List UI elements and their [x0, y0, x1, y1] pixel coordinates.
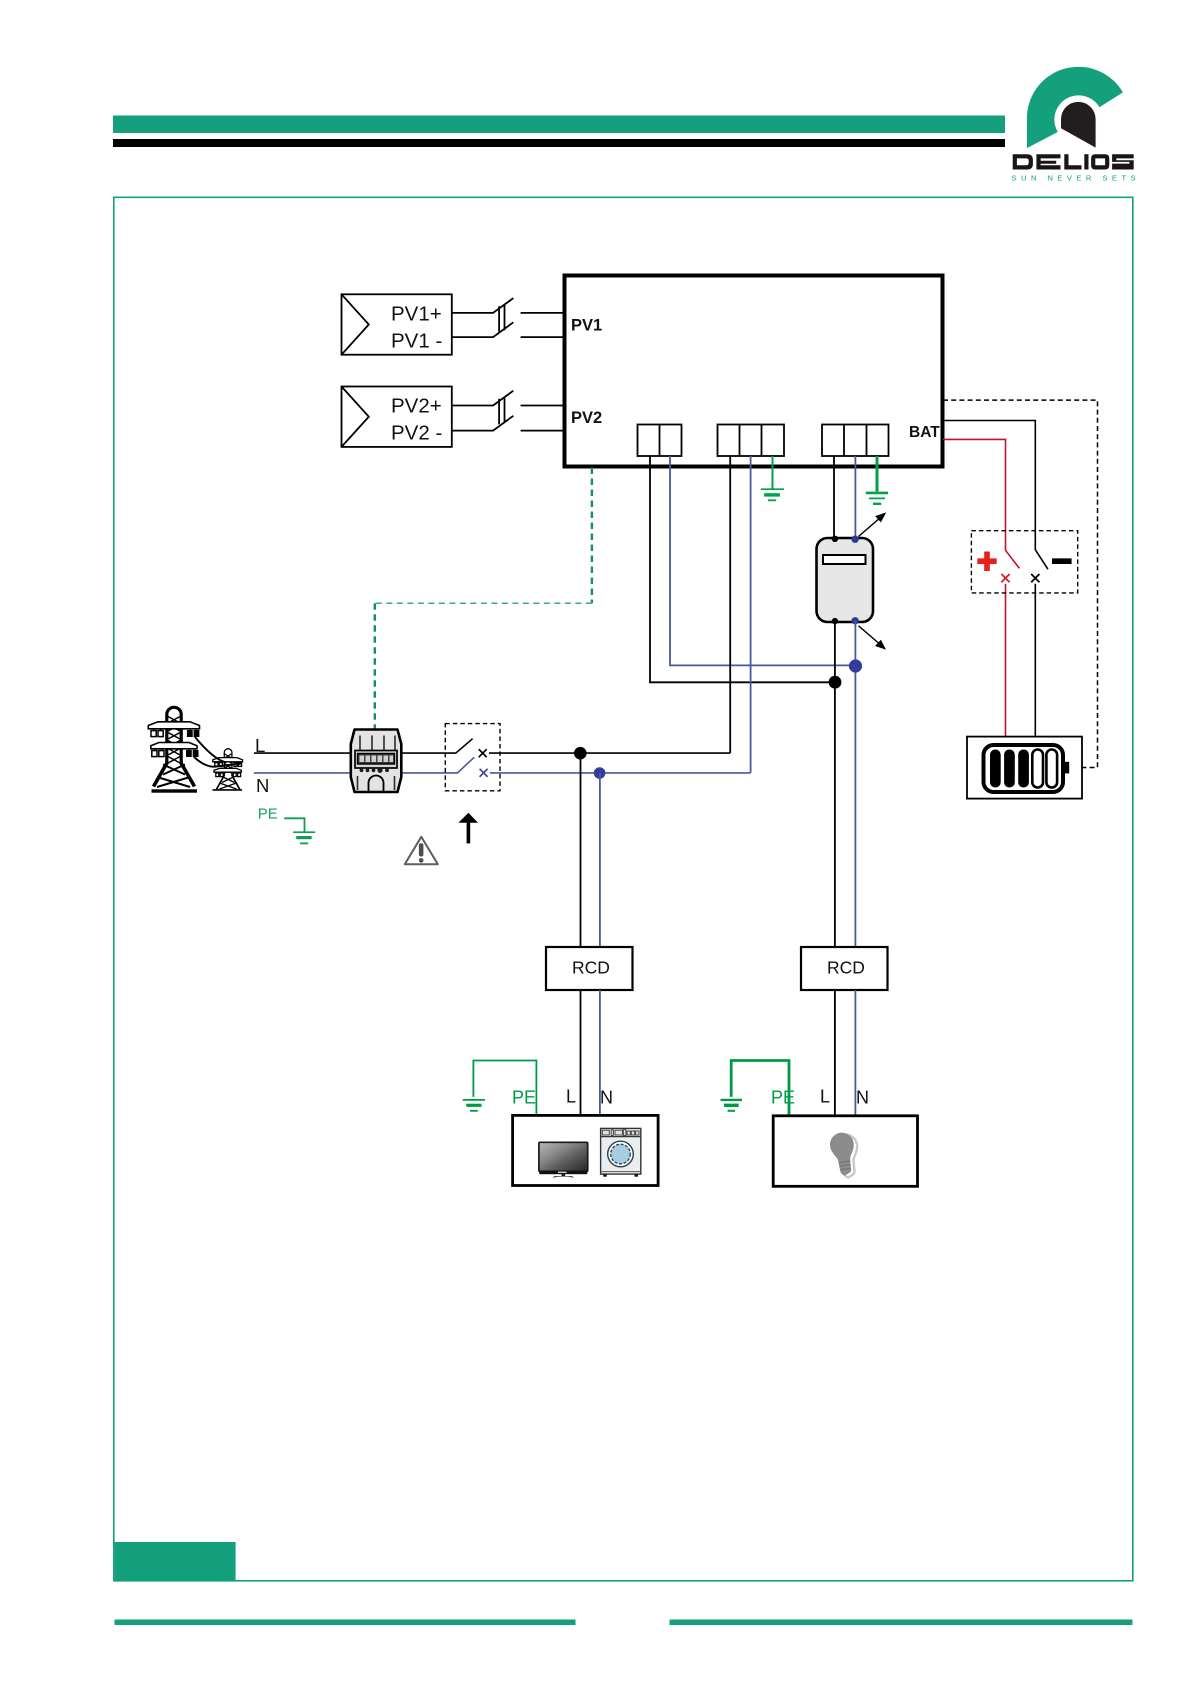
svg-text:PE: PE — [512, 1088, 536, 1108]
loads box 1 — [513, 1115, 659, 1185]
header black bar — [113, 139, 1005, 147]
BAT positive wire red — [943, 439, 1019, 736]
DIN energy meter device — [351, 730, 402, 793]
meter arrow up — [859, 514, 885, 537]
terminal block 3 (load) — [822, 425, 889, 457]
header green bar — [113, 116, 1005, 134]
PE wire loads 1 — [473, 1061, 536, 1117]
wire RCD2 to loads L — [834, 990, 836, 1116]
inverter box — [565, 276, 943, 467]
battery breaker dashed box — [971, 531, 1077, 593]
TV icon — [539, 1142, 588, 1177]
wire grid L black — [729, 456, 731, 753]
wire meter to RCD2 L black — [834, 621, 836, 947]
wire N to RCD1 — [599, 773, 601, 947]
PV1 wires + connector — [452, 298, 565, 337]
svg-text:L: L — [566, 1087, 576, 1107]
footer rule left — [115, 1620, 576, 1626]
svg-text:BAT: BAT — [909, 424, 940, 441]
junction dot black — [829, 676, 842, 689]
wire load N blue — [854, 456, 856, 539]
ground symbol grid PE — [761, 489, 784, 500]
BAT negative wire black — [943, 421, 1048, 737]
loads box 2 — [773, 1116, 917, 1187]
BAT negative contact x — [1031, 574, 1039, 582]
junction dot blue — [849, 659, 862, 672]
svg-text:RCD: RCD — [572, 958, 610, 978]
warning triangle — [405, 837, 438, 864]
grid PE ground — [284, 818, 315, 843]
wire meter to RCD2 N blue — [854, 621, 856, 947]
BAT positive contact x — [1001, 574, 1009, 582]
logo mark green arc — [1027, 67, 1123, 148]
utility tower large — [148, 707, 199, 792]
svg-text:L: L — [820, 1087, 830, 1107]
footer rule right — [670, 1620, 1133, 1626]
svg-text:PE: PE — [771, 1088, 795, 1108]
meter terminal dots — [832, 536, 859, 625]
svg-text:PE: PE — [258, 805, 278, 822]
PV array box 1 — [342, 294, 452, 354]
wire grid PE green — [772, 456, 774, 489]
minus sign black — [1052, 558, 1072, 564]
battery icon — [984, 745, 1070, 792]
logo wordmark DELIOS — [1013, 154, 1134, 169]
wire RCD1 to loads N — [599, 990, 601, 1116]
washing machine icon — [601, 1128, 641, 1176]
up arrow symbol — [458, 813, 478, 844]
BAT dashed monitor line — [943, 400, 1098, 767]
meter arrow down — [859, 626, 885, 649]
junction dot on L — [574, 747, 587, 760]
wire load L black — [833, 456, 835, 539]
ground loads 1 — [463, 1100, 485, 1111]
svg-text:PV2 -: PV2 - — [391, 422, 442, 445]
tower span wire 1 — [195, 737, 227, 763]
grid L contact x — [479, 749, 487, 757]
bulb icon — [828, 1131, 861, 1179]
svg-text:PV1+: PV1+ — [391, 303, 442, 326]
svg-text:PV1: PV1 — [571, 317, 602, 335]
wire RCD2 to loads N — [854, 990, 856, 1116]
wire load PE green thick — [876, 456, 879, 492]
page frame — [114, 197, 1133, 1581]
footer green block — [115, 1542, 236, 1581]
svg-text:RCD: RCD — [827, 958, 865, 978]
svg-text:PV2+: PV2+ — [391, 395, 442, 418]
grid N wire — [254, 757, 751, 773]
ground symbol load PE — [866, 493, 888, 504]
grid breaker dashed box — [445, 724, 500, 791]
utility tower small — [213, 749, 243, 790]
wire grid N blue — [750, 456, 752, 773]
wire backup L black — [650, 456, 834, 682]
PV2 wires + connector — [452, 391, 565, 431]
svg-text:N: N — [856, 1088, 869, 1108]
energy meter (smart meter) body — [817, 538, 874, 622]
battery box — [967, 737, 1082, 799]
grid L wire — [254, 739, 730, 753]
green dashed CT/meter comm line — [375, 468, 592, 729]
svg-text:SUN NEVER SETS: SUN NEVER SETS — [1012, 173, 1141, 182]
PV array box 2 — [342, 387, 452, 447]
wire L to RCD1 — [580, 753, 582, 947]
tower span wire 2 — [194, 757, 242, 767]
svg-text:PV2: PV2 — [571, 409, 602, 427]
grid N contact x — [480, 769, 488, 777]
RCD box 2 — [801, 947, 888, 990]
ground loads 2 — [721, 1100, 743, 1111]
svg-text:N: N — [600, 1088, 613, 1108]
wire RCD1 to loads L — [580, 990, 582, 1116]
terminal block 2 (grid) — [718, 425, 785, 457]
wire backup N blue — [670, 456, 855, 665]
plus sign red — [977, 552, 996, 572]
junction dot on N — [594, 767, 606, 779]
svg-text:PV1 -: PV1 - — [391, 330, 442, 353]
PE wire loads 2 thick — [731, 1061, 789, 1118]
svg-text:N: N — [256, 775, 269, 796]
RCD box 1 — [546, 947, 633, 990]
logo mark black arch — [1061, 102, 1096, 148]
terminal block 1 (backup) — [638, 425, 682, 457]
